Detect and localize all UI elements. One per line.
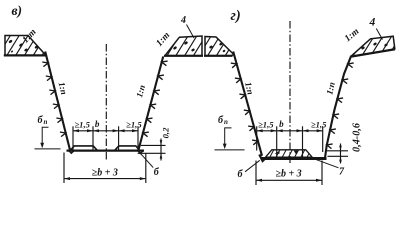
fig.г bottom width dimension ≥b+3	[256, 161, 322, 186]
svg-text:в): в)	[12, 3, 23, 18]
spoil bank right of fig.в (hatched)	[141, 36, 215, 56]
trench fig.в right slope 1:n	[138, 57, 163, 152]
svg-text:п: п	[224, 118, 228, 126]
svg-text:г): г)	[231, 8, 241, 24]
fig.г dimension extension lines	[256, 126, 258, 150]
svg-text:≥1,5: ≥1,5	[258, 119, 274, 129]
svg-text:4: 4	[180, 15, 186, 26]
leader and label б (fig.в, sump)	[139, 152, 153, 168]
svg-text:4: 4	[369, 17, 376, 29]
leader and label 4 (spoil bank) fig.в	[187, 25, 195, 39]
trench fig.в left slope 1:n	[45, 52, 70, 152]
leader and label б (fig.г, sump)	[245, 160, 260, 172]
fig.г bottom left sump dip (б)	[259, 155, 267, 162]
leader and label 7 (bedding) fig.г	[313, 158, 339, 168]
svg-text:0,2: 0,2	[160, 127, 170, 138]
svg-text:0,4-0,6: 0,4-0,6	[352, 122, 363, 152]
slope marks on fig.в left slope	[42, 62, 65, 137]
fig.в centre line	[105, 44, 107, 161]
fig.в dimension line ≥1,5 / b / ≥1,5	[73, 130, 138, 132]
level mark on bedding	[294, 151, 299, 155]
fig.в bottom right sump dip	[138, 150, 144, 153]
svg-text:≥1,5: ≥1,5	[311, 119, 327, 129]
fig.г dimension line ≥1,5 / b / ≥1,5	[257, 130, 323, 132]
trench fig.г right slope 1:n (slightly curved)	[325, 56, 351, 158]
dimension 0,2 at fig.в right ledge	[138, 127, 171, 161]
spoil bank right of fig.г (hatched)	[326, 36, 400, 56]
fig.в bottom left sump dip	[69, 150, 75, 153]
dimension 0,4-0,6 bedding thickness fig.г	[327, 122, 363, 163]
svg-text:≥1,5: ≥1,5	[126, 119, 142, 129]
fig.в dimension extension lines (bottom ledges)	[72, 126, 74, 150]
spoil bank left of fig.в (hatched)	[0, 36, 63, 56]
svg-text:≥b + 3: ≥b + 3	[276, 169, 302, 180]
spoil bank left of fig.г (hatched)	[181, 37, 246, 56]
leader and label 4 (spoil bank) fig.г	[376, 29, 382, 40]
label бп fig.в with down arrow	[35, 115, 61, 149]
fig.в right soil ledge (0,2 high)	[115, 146, 140, 151]
fig.г centre line	[289, 21, 291, 163]
trench fig.в bottom line	[67, 149, 145, 151]
svg-text:п: п	[44, 118, 48, 126]
label бп fig.г with down arrow	[215, 115, 245, 150]
trench fig.г left slope 1:n	[233, 52, 262, 156]
slope marks on fig.г left slope	[231, 63, 258, 145]
bedding layer (подсыпка 7) in fig.г	[257, 150, 317, 157]
svg-text:≥b + 3: ≥b + 3	[92, 168, 118, 179]
fig.в left soil ledge (0,2 high)	[70, 146, 97, 151]
svg-text:≥1,5: ≥1,5	[74, 119, 90, 129]
slope marks on fig.в right slope	[143, 61, 168, 137]
svg-text:b: b	[95, 119, 100, 129]
svg-text:b: b	[279, 119, 284, 129]
slope marks on fig.г right slope	[327, 63, 354, 149]
fig.в bottom width dimension ≥b+3	[64, 153, 146, 184]
trench fig.г bottom line	[261, 157, 327, 160]
